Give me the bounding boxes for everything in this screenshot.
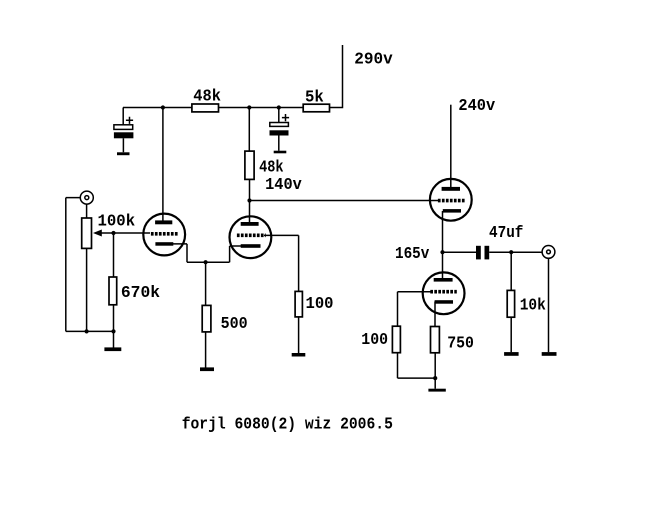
svg-text:290v: 290v [354, 51, 393, 69]
svg-text:140v: 140v [265, 176, 302, 194]
svg-text:100: 100 [306, 295, 334, 313]
svg-text:5k: 5k [305, 89, 324, 107]
svg-text:165v: 165v [395, 245, 430, 263]
svg-text:500: 500 [221, 315, 248, 333]
svg-text:47uf: 47uf [489, 224, 523, 242]
svg-text:48k: 48k [259, 159, 284, 177]
svg-text:100k: 100k [98, 212, 136, 230]
svg-text:10k: 10k [520, 297, 546, 315]
svg-text:100: 100 [361, 331, 388, 349]
svg-text:48k: 48k [193, 87, 221, 105]
svg-text:670k: 670k [121, 284, 160, 302]
svg-text:forjl 6080(2) wiz 2006.5: forjl 6080(2) wiz 2006.5 [182, 416, 393, 434]
svg-text:240v: 240v [458, 97, 495, 115]
svg-text:750: 750 [447, 334, 474, 352]
